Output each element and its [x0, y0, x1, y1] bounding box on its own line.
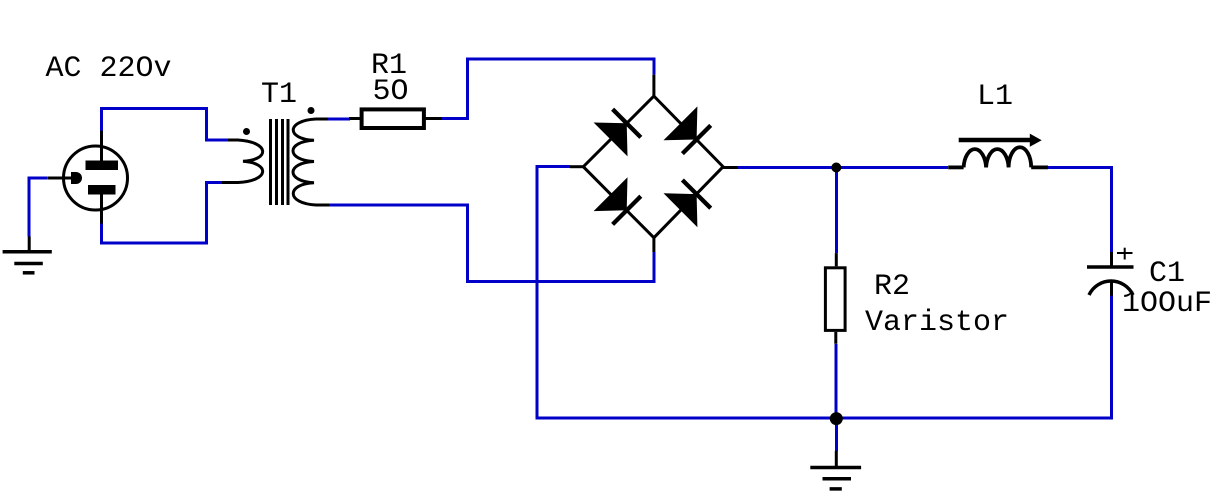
svg-text:Varistor: Varistor [865, 306, 1009, 340]
svg-text:AC 22Ov: AC 22Ov [46, 52, 172, 86]
svg-text:5O: 5O [373, 75, 409, 109]
svg-text:R2: R2 [874, 270, 910, 304]
svg-text:L1: L1 [977, 80, 1013, 114]
svg-text:T1: T1 [261, 78, 297, 112]
svg-text:C1: C1 [1149, 257, 1185, 291]
svg-text:1OOuF: 1OOuF [1122, 287, 1212, 321]
